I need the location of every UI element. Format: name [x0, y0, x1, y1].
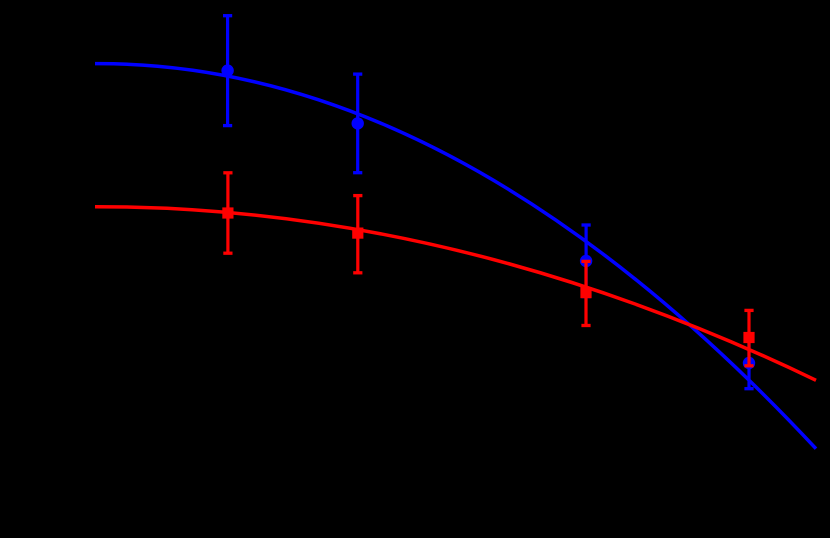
- blue point 3 marker: [580, 255, 592, 267]
- red point 4 bottom cap: [744, 364, 753, 367]
- blue point 2 bottom cap: [353, 171, 362, 174]
- blue point 4 marker: [743, 357, 755, 369]
- red point 1 bottom cap: [223, 252, 232, 255]
- blue point 2 top cap: [353, 72, 362, 75]
- blue point 4 top cap: [744, 336, 753, 339]
- red point 1 error bar: [226, 173, 229, 253]
- blue point 3 top cap: [582, 223, 591, 226]
- red point 4 error bar: [747, 310, 750, 365]
- blue point 1 bottom cap: [223, 124, 232, 127]
- red point 4 top cap: [744, 309, 753, 312]
- blue point 3 bottom cap: [582, 295, 591, 298]
- red point 1 marker: [222, 207, 233, 218]
- blue point 1 marker: [221, 64, 233, 76]
- blue point 2 marker: [352, 117, 364, 129]
- red point 1 top cap: [223, 171, 232, 174]
- red point 3 marker: [580, 287, 591, 298]
- red point 4 marker: [743, 332, 754, 343]
- blue point 3 error bar: [584, 225, 587, 297]
- red fit curve: [95, 207, 816, 381]
- blue point 4 bottom cap: [744, 387, 753, 390]
- blue point 4 error bar: [747, 337, 750, 388]
- red point 3 top cap: [581, 260, 590, 263]
- blue point 1 error bar: [226, 16, 229, 126]
- blue point 1 top cap: [223, 14, 232, 17]
- red point 3 error bar: [584, 261, 587, 325]
- red point 3 bottom cap: [581, 324, 590, 327]
- red point 2 top cap: [353, 194, 362, 197]
- red point 2 bottom cap: [353, 271, 362, 274]
- blue point 2 error bar: [356, 74, 359, 173]
- red point 2 error bar: [356, 196, 359, 273]
- red point 2 marker: [352, 228, 363, 239]
- blue fit curve: [95, 64, 816, 449]
